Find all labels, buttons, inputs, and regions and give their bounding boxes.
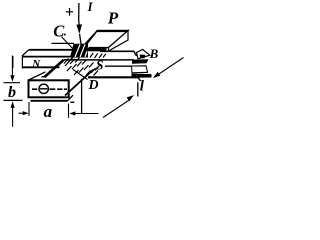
block lower front face	[29, 80, 69, 97]
wire D leader	[73, 70, 88, 80]
rod N front-top edge	[22, 56, 76, 58]
dimension a extension left	[28, 102, 30, 116]
arrow B head underside dark	[132, 59, 149, 64]
plate strip edge stub	[42, 76, 46, 78]
wire current lead I with arrow	[78, 3, 81, 26]
svg-text:b: b	[8, 84, 16, 101]
rod S end face	[132, 66, 148, 73]
dimension a extension right	[68, 104, 70, 118]
svg-text:B: B	[149, 46, 159, 61]
rod N left cap	[22, 50, 29, 56]
dimension l lower-left arrow	[103, 100, 130, 118]
dimension b extension top	[4, 82, 21, 84]
block lower top-left edge	[29, 72, 46, 80]
block P right face	[109, 31, 129, 51]
block lower bottom-right edge	[65, 70, 94, 96]
wire C leader	[62, 37, 79, 55]
wire D output lead	[81, 79, 83, 114]
dimension l upper-right arrow	[156, 58, 184, 77]
label plus terminal	[66, 11, 73, 13]
dimension a right arrow	[73, 113, 99, 115]
rod S rear-top edge	[100, 50, 134, 52]
dimension l tick	[137, 82, 139, 96]
dimension a left arrow	[19, 112, 25, 114]
rod S end underside dark	[132, 74, 152, 78]
plate left edge thick	[45, 60, 64, 77]
dimension b upper arrow	[11, 56, 13, 77]
arrow B head outline	[137, 50, 150, 59]
block P left edge	[70, 31, 97, 61]
rod S front-bottom edge	[105, 65, 138, 67]
svg-text:N: N	[31, 58, 41, 70]
label minus terminal	[70, 101, 74, 103]
wire plate rear-top edge	[52, 42, 75, 44]
plate front face hatching	[64, 59, 69, 64]
block P top face	[84, 31, 128, 48]
symbol electron circled minus with dashes	[32, 88, 37, 90]
plate front-bottom edge thick	[88, 76, 138, 78]
svg-text:P: P	[107, 9, 119, 28]
plate cut hatch marks right	[90, 53, 93, 58]
plate front-top edge	[64, 59, 135, 61]
dimension b lower arrow	[12, 107, 14, 127]
svg-text:D: D	[88, 78, 99, 93]
wire left tick	[12, 56, 14, 68]
dimension b extension bottom	[4, 99, 23, 101]
plate cut section dark blob	[79, 48, 81, 51]
block P front face dark band	[84, 48, 107, 52]
rod N rear-top edge	[29, 49, 73, 51]
svg-text:C: C	[53, 22, 65, 41]
svg-text:S: S	[96, 58, 104, 73]
electrode under block	[31, 100, 68, 102]
svg-text:a: a	[44, 102, 53, 121]
rod N front-bottom edge	[23, 66, 60, 68]
